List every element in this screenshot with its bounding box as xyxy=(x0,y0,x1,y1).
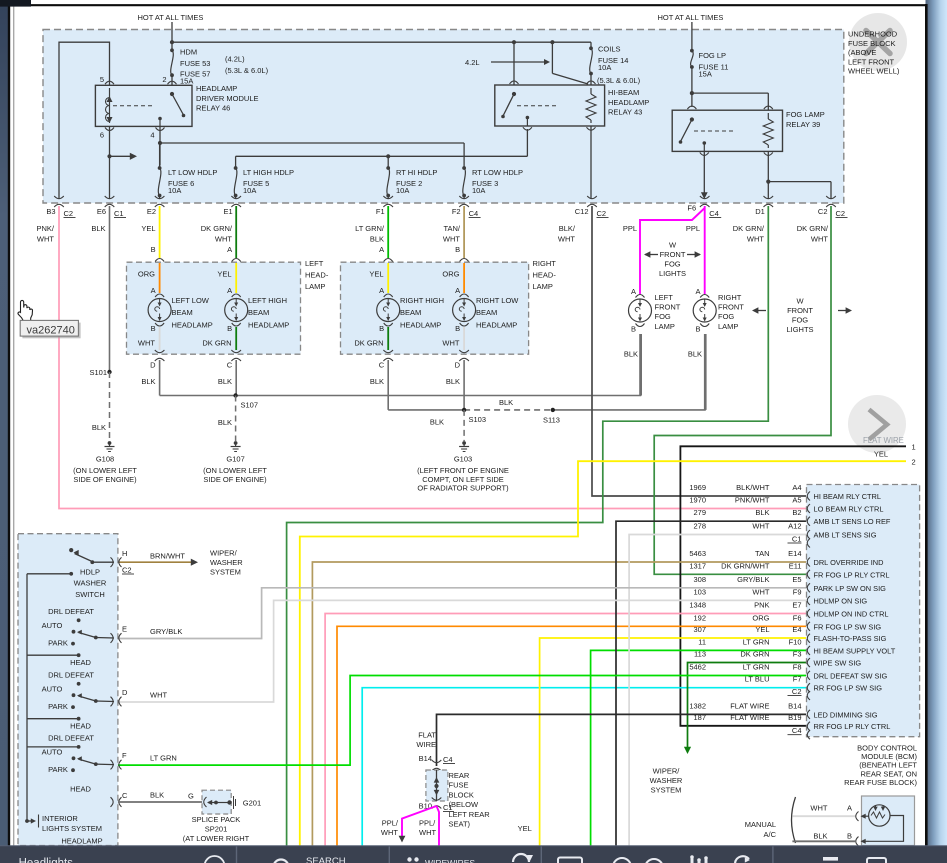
svg-text:A: A xyxy=(227,245,232,254)
svg-text:COILS: COILS xyxy=(598,45,621,54)
svg-text:WHT: WHT xyxy=(442,339,459,348)
svg-text:C12: C12 xyxy=(575,207,589,216)
svg-text:A12: A12 xyxy=(788,522,801,531)
svg-text:FOG LP: FOG LP xyxy=(699,51,727,60)
svg-text:HI BEAM RLY CTRL: HI BEAM RLY CTRL xyxy=(814,492,882,501)
svg-text:RIGHT: RIGHT xyxy=(718,293,742,302)
svg-text:WIREWIRES: WIREWIRES xyxy=(425,858,475,863)
svg-text:103: 103 xyxy=(693,588,706,597)
svg-text:HEAD: HEAD xyxy=(70,784,91,793)
svg-text:B: B xyxy=(151,324,156,333)
svg-text:YEL: YEL xyxy=(874,450,888,459)
svg-text:B: B xyxy=(227,324,232,333)
svg-text:AUTO: AUTO xyxy=(42,685,63,694)
svg-text:C4: C4 xyxy=(709,209,719,218)
svg-text:A: A xyxy=(695,287,700,296)
svg-text:WIPE SW SIG: WIPE SW SIG xyxy=(814,659,862,668)
svg-text:(ON LOWER LEFT: (ON LOWER LEFT xyxy=(203,466,267,475)
svg-text:WHT: WHT xyxy=(215,235,232,244)
svg-text:A: A xyxy=(151,286,156,295)
svg-text:LIGHTS: LIGHTS xyxy=(786,325,813,334)
svg-text:SWITCH: SWITCH xyxy=(75,590,105,599)
svg-text:WHT: WHT xyxy=(752,522,769,531)
svg-text:HDM: HDM xyxy=(180,48,197,57)
svg-text:YEL: YEL xyxy=(518,824,532,833)
svg-text:BEAM: BEAM xyxy=(476,308,497,317)
svg-text:WHEEL WELL): WHEEL WELL) xyxy=(848,67,900,76)
svg-text:YEL: YEL xyxy=(755,625,769,634)
svg-text:MANUAL: MANUAL xyxy=(745,820,776,829)
svg-text:LAMP: LAMP xyxy=(655,322,675,331)
svg-text:DK GRN: DK GRN xyxy=(354,339,383,348)
svg-text:(BELOW: (BELOW xyxy=(449,800,480,809)
svg-text:W: W xyxy=(669,241,677,250)
svg-text:5462: 5462 xyxy=(689,662,706,671)
svg-text:11: 11 xyxy=(698,637,706,646)
svg-text:192: 192 xyxy=(693,613,706,622)
svg-text:LIGHTS: LIGHTS xyxy=(659,269,686,278)
svg-text:F6: F6 xyxy=(793,613,802,622)
svg-text:S107: S107 xyxy=(241,401,259,410)
svg-text:(5.3L & 6.0L): (5.3L & 6.0L) xyxy=(597,76,641,85)
svg-text:WASHER: WASHER xyxy=(650,776,683,785)
svg-text:Headlights: Headlights xyxy=(19,858,74,863)
svg-text:BLK: BLK xyxy=(370,377,384,386)
svg-text:HEADLAMP: HEADLAMP xyxy=(248,320,289,329)
svg-text:BLK: BLK xyxy=(91,224,105,233)
svg-text:4.2L: 4.2L xyxy=(465,58,480,67)
svg-text:SP201: SP201 xyxy=(205,825,228,834)
svg-text:SIDE OF ENGINE): SIDE OF ENGINE) xyxy=(73,475,137,484)
svg-text:(ON LOWER LEFT: (ON LOWER LEFT xyxy=(73,466,137,475)
svg-text:HDLMP ON SIG: HDLMP ON SIG xyxy=(814,597,868,606)
svg-text:F9: F9 xyxy=(793,588,802,597)
svg-text:10A: 10A xyxy=(396,186,409,195)
svg-text:D1: D1 xyxy=(755,207,765,216)
svg-text:RT HI HDLP: RT HI HDLP xyxy=(396,168,437,177)
svg-text:C1: C1 xyxy=(792,535,802,544)
svg-text:UNDERHOOD: UNDERHOOD xyxy=(848,30,898,39)
svg-text:DRIVER MODULE: DRIVER MODULE xyxy=(196,94,259,103)
svg-text:DK GRN/WHT: DK GRN/WHT xyxy=(721,561,770,570)
svg-text:HEADLAMP: HEADLAMP xyxy=(476,320,517,329)
svg-text:B: B xyxy=(631,325,636,334)
svg-text:WHT: WHT xyxy=(747,235,764,244)
svg-text:6: 6 xyxy=(100,131,104,140)
svg-text:F7: F7 xyxy=(793,675,802,684)
svg-text:S101: S101 xyxy=(89,368,107,377)
svg-text:D: D xyxy=(122,688,128,697)
svg-text:PPL: PPL xyxy=(623,224,637,233)
svg-text:LO BEAM RLY CTRL: LO BEAM RLY CTRL xyxy=(814,505,884,514)
svg-text:WIPER/: WIPER/ xyxy=(210,549,238,558)
svg-text:B3: B3 xyxy=(46,207,55,216)
svg-text:PPL/: PPL/ xyxy=(419,819,436,828)
svg-text:B19: B19 xyxy=(788,713,801,722)
svg-text:BLK/: BLK/ xyxy=(559,224,576,233)
svg-text:HEADLAMP: HEADLAMP xyxy=(61,837,102,846)
svg-text:FRONT: FRONT xyxy=(787,306,813,315)
svg-text:SYSTEM: SYSTEM xyxy=(210,568,241,577)
svg-text:D: D xyxy=(150,361,156,370)
svg-text:5463: 5463 xyxy=(689,549,706,558)
svg-text:SEAT): SEAT) xyxy=(449,820,471,829)
svg-text:E6: E6 xyxy=(97,207,106,216)
svg-text:BRN/WHT: BRN/WHT xyxy=(150,552,185,561)
svg-text:C4: C4 xyxy=(469,209,479,218)
svg-text:307: 307 xyxy=(693,625,706,634)
svg-text:WHT: WHT xyxy=(752,588,769,597)
svg-text:FUSE BLOCK: FUSE BLOCK xyxy=(848,39,896,48)
svg-text:HEADLAMP: HEADLAMP xyxy=(196,84,237,93)
svg-text:S103: S103 xyxy=(469,415,487,424)
svg-text:BLK: BLK xyxy=(92,423,106,432)
svg-text:10A: 10A xyxy=(168,186,181,195)
svg-text:S113: S113 xyxy=(543,416,560,425)
svg-text:HDLP: HDLP xyxy=(80,568,100,577)
svg-text:ORG: ORG xyxy=(138,270,155,279)
svg-text:HEAD-: HEAD- xyxy=(305,271,329,280)
svg-text:BLK: BLK xyxy=(141,377,155,386)
svg-text:5: 5 xyxy=(100,75,104,84)
svg-text:PARK: PARK xyxy=(48,702,68,711)
svg-text:G201: G201 xyxy=(243,799,261,808)
svg-text:PARK LP SW ON SIG: PARK LP SW ON SIG xyxy=(814,584,887,593)
svg-text:A: A xyxy=(379,245,384,254)
svg-text:YEL: YEL xyxy=(141,224,155,233)
svg-text:E11: E11 xyxy=(789,561,802,570)
svg-text:C2: C2 xyxy=(836,209,846,218)
svg-text:FRONT: FRONT xyxy=(718,303,744,312)
svg-text:BLK: BLK xyxy=(150,791,164,800)
svg-text:PARK: PARK xyxy=(48,765,68,774)
svg-text:C4: C4 xyxy=(443,755,453,764)
svg-text:H: H xyxy=(122,549,127,558)
svg-text:LT LOW HDLP: LT LOW HDLP xyxy=(168,168,217,177)
svg-text:LT GRN: LT GRN xyxy=(743,637,770,646)
svg-text:FOG: FOG xyxy=(718,312,734,321)
svg-text:DK GRN: DK GRN xyxy=(740,650,769,659)
svg-text:F8: F8 xyxy=(793,662,802,671)
svg-text:HDLMP ON IND CTRL: HDLMP ON IND CTRL xyxy=(814,610,889,619)
svg-text:(5.3L & 6.0L): (5.3L & 6.0L) xyxy=(225,66,269,75)
svg-text:1348: 1348 xyxy=(689,601,706,610)
svg-text:LAMP: LAMP xyxy=(305,282,325,291)
svg-text:LAMP: LAMP xyxy=(533,282,553,291)
svg-text:(AT LOWER RIGHT: (AT LOWER RIGHT xyxy=(183,834,250,843)
svg-text:15A: 15A xyxy=(699,70,712,79)
svg-text:2: 2 xyxy=(912,458,916,467)
svg-text:LT GRN: LT GRN xyxy=(150,754,177,763)
svg-text:RELAY 46: RELAY 46 xyxy=(196,104,230,113)
svg-text:W: W xyxy=(796,297,804,306)
svg-text:RELAY 43: RELAY 43 xyxy=(608,108,642,117)
svg-text:FLAT WIRE: FLAT WIRE xyxy=(730,701,769,710)
svg-text:BLK: BLK xyxy=(370,235,384,244)
svg-text:HOT AT ALL TIMES: HOT AT ALL TIMES xyxy=(138,13,204,22)
svg-text:A: A xyxy=(847,804,852,813)
svg-text:HEADLAMP: HEADLAMP xyxy=(400,320,441,329)
svg-text:B2: B2 xyxy=(792,508,801,517)
svg-text:HEAD-: HEAD- xyxy=(533,271,557,280)
svg-text:DRL DEFEAT: DRL DEFEAT xyxy=(48,671,94,680)
svg-text:187: 187 xyxy=(693,713,706,722)
svg-text:LED DIMMING SIG: LED DIMMING SIG xyxy=(814,710,878,719)
svg-text:F2: F2 xyxy=(452,207,461,216)
svg-text:A: A xyxy=(379,286,384,295)
svg-text:WHT: WHT xyxy=(558,235,575,244)
svg-text:10A: 10A xyxy=(598,63,611,72)
svg-text:B: B xyxy=(455,324,460,333)
svg-text:E5: E5 xyxy=(792,575,801,584)
svg-text:WHT: WHT xyxy=(381,828,398,837)
svg-text:C2: C2 xyxy=(597,209,607,218)
svg-text:(ABOVE: (ABOVE xyxy=(848,48,876,57)
svg-text:PARK: PARK xyxy=(48,639,68,648)
svg-text:DRL DEFEAT: DRL DEFEAT xyxy=(48,607,94,616)
svg-text:HI-BEAM: HI-BEAM xyxy=(608,88,639,97)
svg-text:SPLICE PACK: SPLICE PACK xyxy=(192,815,241,824)
svg-text:FOG LAMP: FOG LAMP xyxy=(786,110,825,119)
svg-text:F6: F6 xyxy=(687,204,696,213)
svg-text:RIGHT LOW: RIGHT LOW xyxy=(476,296,519,305)
svg-text:C1: C1 xyxy=(114,209,124,218)
svg-text:WHT: WHT xyxy=(419,828,436,837)
svg-text:PNK/WHT: PNK/WHT xyxy=(735,496,770,505)
svg-text:WASHER: WASHER xyxy=(74,579,107,588)
svg-text:DK GRN/: DK GRN/ xyxy=(797,224,829,233)
svg-text:A5: A5 xyxy=(792,496,801,505)
svg-text:FUSE 53: FUSE 53 xyxy=(180,59,210,68)
svg-text:LEFT: LEFT xyxy=(305,259,324,268)
svg-text:DRL DEFEAT: DRL DEFEAT xyxy=(48,734,94,743)
svg-text:BEAM: BEAM xyxy=(400,308,421,317)
svg-text:ORG: ORG xyxy=(442,270,459,279)
svg-text:LT GRN: LT GRN xyxy=(743,662,770,671)
svg-text:WHT: WHT xyxy=(138,339,155,348)
svg-text:AUTO: AUTO xyxy=(42,748,63,757)
svg-text:LT HIGH HDLP: LT HIGH HDLP xyxy=(243,168,294,177)
svg-text:AUTO: AUTO xyxy=(42,621,63,630)
svg-text:2: 2 xyxy=(162,75,166,84)
svg-text:LEFT FRONT: LEFT FRONT xyxy=(848,57,895,66)
svg-text:WIPER/: WIPER/ xyxy=(653,767,681,776)
svg-text:10A: 10A xyxy=(472,186,485,195)
svg-text:DK GRN: DK GRN xyxy=(202,339,231,348)
svg-text:LT BLU: LT BLU xyxy=(745,675,770,684)
svg-text:LEFT REAR: LEFT REAR xyxy=(449,810,491,819)
svg-text:BLK: BLK xyxy=(688,350,702,359)
svg-text:C4: C4 xyxy=(792,726,802,735)
svg-text:PNK/: PNK/ xyxy=(36,224,54,233)
svg-text:1970: 1970 xyxy=(689,496,706,505)
svg-text:1382: 1382 xyxy=(689,701,706,710)
svg-text:C2: C2 xyxy=(64,209,74,218)
svg-text:HEADLAMP: HEADLAMP xyxy=(172,320,213,329)
svg-text:RR FOG LP RLY CTRL: RR FOG LP RLY CTRL xyxy=(814,722,891,731)
svg-text:WASHER: WASHER xyxy=(210,558,243,567)
svg-text:G107: G107 xyxy=(226,455,244,464)
svg-text:PPL/: PPL/ xyxy=(382,819,399,828)
svg-text:RIGHT HIGH: RIGHT HIGH xyxy=(400,296,444,305)
svg-text:A: A xyxy=(227,286,232,295)
svg-text:C: C xyxy=(122,791,128,800)
svg-text:F: F xyxy=(122,751,127,760)
svg-text:DK GRN/: DK GRN/ xyxy=(201,224,233,233)
svg-text:DK GRN/: DK GRN/ xyxy=(733,224,765,233)
svg-text:BLK: BLK xyxy=(813,832,827,841)
svg-text:LT GRN/: LT GRN/ xyxy=(355,224,385,233)
svg-text:FLAT WIRE: FLAT WIRE xyxy=(863,436,904,445)
svg-text:FOG: FOG xyxy=(655,312,671,321)
svg-text:OF RADIATOR SUPPORT): OF RADIATOR SUPPORT) xyxy=(417,483,509,492)
svg-text:B14: B14 xyxy=(788,701,801,710)
svg-text:C2: C2 xyxy=(818,207,828,216)
svg-text:G103: G103 xyxy=(454,455,472,464)
svg-text:GRY/BLK: GRY/BLK xyxy=(737,575,769,584)
svg-text:PNK: PNK xyxy=(754,601,769,610)
svg-text:279: 279 xyxy=(693,508,706,517)
svg-text:SIDE OF ENGINE): SIDE OF ENGINE) xyxy=(203,475,267,484)
svg-text:(LEFT FRONT OF ENGINE: (LEFT FRONT OF ENGINE xyxy=(417,466,509,475)
svg-text:1969: 1969 xyxy=(689,483,706,492)
svg-text:RR FOG LP SW SIG: RR FOG LP SW SIG xyxy=(814,684,883,693)
svg-text:RELAY 39: RELAY 39 xyxy=(786,120,820,129)
svg-text:F3: F3 xyxy=(793,650,802,659)
svg-text:HEAD: HEAD xyxy=(70,721,91,730)
svg-text:278: 278 xyxy=(693,522,706,531)
svg-text:YEL: YEL xyxy=(217,270,231,279)
svg-text:INTERIOR: INTERIOR xyxy=(42,814,78,823)
svg-text:A4: A4 xyxy=(792,483,801,492)
svg-text:B: B xyxy=(379,324,384,333)
svg-text:B14: B14 xyxy=(419,754,432,763)
svg-text:FR FOG LP RLY CTRL: FR FOG LP RLY CTRL xyxy=(814,570,890,579)
svg-text:FLAT: FLAT xyxy=(418,731,436,740)
svg-text:PPL: PPL xyxy=(686,224,700,233)
svg-text:BLOCK: BLOCK xyxy=(449,790,474,799)
svg-text:308: 308 xyxy=(693,575,706,584)
svg-text:BEAM: BEAM xyxy=(172,308,193,317)
svg-text:E2: E2 xyxy=(147,207,156,216)
svg-text:WHT: WHT xyxy=(811,235,828,244)
svg-text:E1: E1 xyxy=(224,207,233,216)
svg-text:A/C: A/C xyxy=(763,830,776,839)
svg-text:E: E xyxy=(122,625,127,634)
svg-text:B: B xyxy=(455,245,460,254)
svg-text:A: A xyxy=(631,287,636,296)
svg-text:WHT: WHT xyxy=(37,235,54,244)
svg-text:LEFT: LEFT xyxy=(655,293,674,302)
svg-text:WIRE: WIRE xyxy=(416,740,436,749)
svg-text:C2: C2 xyxy=(122,566,132,575)
svg-text:B: B xyxy=(695,325,700,334)
svg-text:BEAM: BEAM xyxy=(248,308,269,317)
svg-text:HOT AT ALL TIMES: HOT AT ALL TIMES xyxy=(658,13,724,22)
svg-text:1: 1 xyxy=(912,443,916,452)
svg-text:E7: E7 xyxy=(792,601,801,610)
svg-text:va262740: va262740 xyxy=(27,325,75,337)
svg-text:RIGHT: RIGHT xyxy=(533,259,557,268)
svg-text:YEL: YEL xyxy=(369,270,383,279)
svg-text:BLK: BLK xyxy=(430,418,444,427)
svg-text:WHT: WHT xyxy=(443,235,460,244)
svg-text:FRONT: FRONT xyxy=(655,303,681,312)
svg-text:LEFT HIGH: LEFT HIGH xyxy=(248,296,287,305)
svg-text:WHT: WHT xyxy=(150,691,167,700)
svg-text:REAR: REAR xyxy=(449,771,470,780)
svg-text:HEAD: HEAD xyxy=(70,658,91,667)
svg-text:BLK: BLK xyxy=(218,418,232,427)
svg-text:AMB LT SENS LO REF: AMB LT SENS LO REF xyxy=(814,517,891,526)
svg-text:BLK: BLK xyxy=(624,350,638,359)
svg-text:10A: 10A xyxy=(243,186,256,195)
svg-text:HEADLAMP: HEADLAMP xyxy=(608,98,649,107)
svg-text:BLK: BLK xyxy=(755,508,769,517)
svg-text:C: C xyxy=(379,361,385,370)
svg-text:FLAT WIRE: FLAT WIRE xyxy=(730,713,769,722)
svg-text:FUSE: FUSE xyxy=(449,781,469,790)
svg-text:TAN/: TAN/ xyxy=(443,224,460,233)
svg-text:SYSTEM: SYSTEM xyxy=(651,786,682,795)
svg-text:D: D xyxy=(455,361,461,370)
svg-text:RT LOW HDLP: RT LOW HDLP xyxy=(472,168,523,177)
svg-text:GRY/BLK: GRY/BLK xyxy=(150,627,182,636)
svg-text:1317: 1317 xyxy=(689,561,706,570)
svg-text:REAR FUSE BLOCK): REAR FUSE BLOCK) xyxy=(844,778,917,787)
svg-text:SEARCH: SEARCH xyxy=(306,856,346,863)
svg-text:G: G xyxy=(188,792,194,801)
svg-text:TAN: TAN xyxy=(755,549,769,558)
svg-text:BLK: BLK xyxy=(446,377,460,386)
svg-text:FLASH-TO-PASS SIG: FLASH-TO-PASS SIG xyxy=(814,634,887,643)
svg-text:DRL DEFEAT SW SIG: DRL DEFEAT SW SIG xyxy=(814,671,888,680)
svg-text:WHT: WHT xyxy=(810,804,827,813)
svg-text:4: 4 xyxy=(150,131,154,140)
svg-text:ORG: ORG xyxy=(752,613,769,622)
svg-text:A: A xyxy=(455,286,460,295)
svg-text:BLK/WHT: BLK/WHT xyxy=(736,483,770,492)
svg-text:(4.2L): (4.2L) xyxy=(225,55,245,64)
svg-text:F10: F10 xyxy=(789,637,802,646)
svg-text:B: B xyxy=(151,245,156,254)
svg-text:FOG: FOG xyxy=(792,316,808,325)
svg-text:LAMP: LAMP xyxy=(718,322,738,331)
svg-text:113: 113 xyxy=(694,650,706,659)
svg-text:FRONT: FRONT xyxy=(660,250,686,259)
svg-text:G108: G108 xyxy=(96,455,114,464)
svg-text:F1: F1 xyxy=(376,207,385,216)
svg-text:E14: E14 xyxy=(788,549,801,558)
svg-text:C: C xyxy=(227,361,233,370)
svg-text:LEFT LOW: LEFT LOW xyxy=(172,296,210,305)
svg-text:E4: E4 xyxy=(792,625,801,634)
svg-text:LIGHTS SYSTEM: LIGHTS SYSTEM xyxy=(42,824,102,833)
svg-text:C2: C2 xyxy=(792,687,802,696)
svg-text:BLK: BLK xyxy=(218,377,232,386)
svg-text:HI BEAM SUPPLY VOLT: HI BEAM SUPPLY VOLT xyxy=(814,646,896,655)
svg-text:DRL OVERRIDE IND: DRL OVERRIDE IND xyxy=(814,558,884,567)
svg-text:15A: 15A xyxy=(180,77,193,86)
svg-text:FOG: FOG xyxy=(664,260,680,269)
svg-text:AMB LT SENS SIG: AMB LT SENS SIG xyxy=(814,531,877,540)
svg-text:FR FOG LP SW SIG: FR FOG LP SW SIG xyxy=(814,622,882,631)
svg-text:BLK: BLK xyxy=(499,398,513,407)
svg-text:B: B xyxy=(847,832,852,841)
